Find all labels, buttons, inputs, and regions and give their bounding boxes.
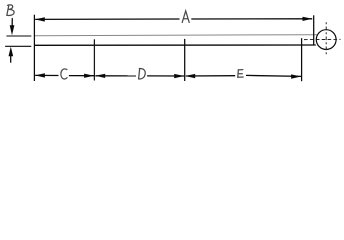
dimension C right arrowhead	[84, 74, 94, 78]
B top extension line	[6, 35, 31, 37]
dimension B upper arrow shaft	[11, 18, 13, 28]
dimension B upper arrowhead (points down)	[10, 25, 15, 35]
dimension A line right part	[191, 18, 312, 20]
centerline horizontal	[304, 38, 341, 40]
letter B	[7, 5, 14, 16]
dimension D right arrowhead	[174, 74, 184, 78]
centerline vertical	[325, 22, 327, 55]
dimension A left arrowhead	[35, 17, 45, 21]
dimension A right arrowhead	[303, 17, 313, 21]
dimension E line left part	[186, 75, 235, 77]
B bottom extension line	[5, 45, 31, 47]
dimension C line right part	[69, 75, 94, 77]
dimension D line right part	[147, 75, 184, 77]
bar right edge / extension line A right	[313, 15, 315, 45]
bar left edge / shared extension line A-C	[33, 15, 35, 81]
circle (ball end)	[316, 30, 336, 50]
dimension C left arrowhead	[35, 73, 45, 77]
letter E	[238, 70, 244, 78]
letter D	[139, 69, 146, 80]
dimension D left arrowhead	[95, 74, 105, 78]
bar top edge	[34, 35, 317, 36]
dimension E left arrowhead	[185, 74, 195, 78]
dimension E line right part	[246, 75, 301, 76]
bar bottom edge	[34, 44, 315, 46]
tick extension line E right	[301, 38, 303, 81]
dimension B lower arrow shaft	[10, 53, 12, 63]
letter C	[61, 69, 67, 79]
dimension B lower arrowhead (points up)	[9, 47, 14, 57]
dimension D line left part	[95, 75, 136, 77]
tick extension line C/D	[93, 39, 95, 80]
dimension E right arrowhead	[291, 74, 301, 78]
dimension C line left part	[35, 74, 58, 76]
tick extension line D/E	[184, 39, 186, 81]
dimension A line left part	[35, 18, 179, 20]
letter A	[182, 11, 189, 23]
